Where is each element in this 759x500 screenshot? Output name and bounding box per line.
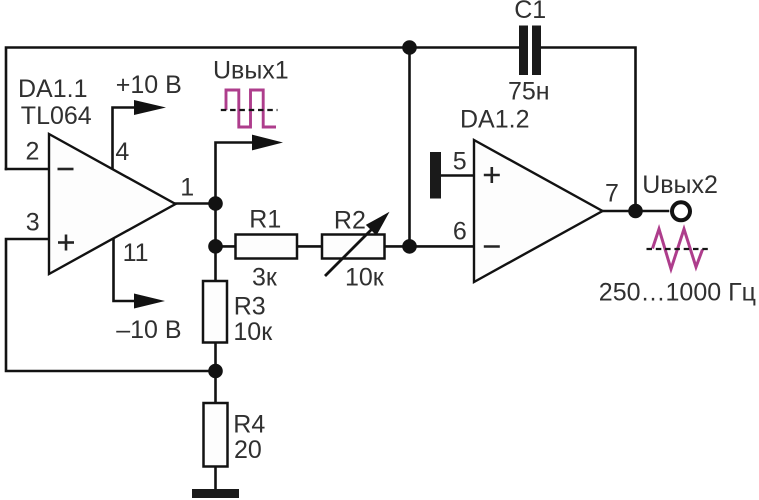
svg-text:4: 4 [115, 138, 129, 166]
svg-text:DA1.1: DA1.1 [18, 75, 87, 103]
svg-text:R4: R4 [233, 411, 265, 439]
svg-text:C1: C1 [514, 0, 546, 24]
svg-text:10к: 10к [233, 318, 273, 346]
svg-text:R1: R1 [249, 206, 281, 234]
svg-text:+10 В: +10 В [116, 71, 182, 99]
svg-text:Uвых1: Uвых1 [213, 57, 289, 85]
svg-text:6: 6 [453, 218, 467, 246]
svg-text:75н: 75н [508, 78, 550, 106]
svg-text:TL064: TL064 [21, 102, 92, 130]
svg-text:20: 20 [234, 436, 262, 464]
svg-text:7: 7 [605, 180, 619, 208]
svg-text:2: 2 [26, 138, 40, 166]
svg-text:5: 5 [453, 148, 467, 176]
svg-text:10к: 10к [345, 263, 385, 291]
svg-text:3к: 3к [252, 263, 278, 291]
svg-text:–10 В: –10 В [116, 316, 181, 344]
svg-text:3: 3 [26, 209, 40, 237]
svg-text:250…1000 Гц: 250…1000 Гц [599, 278, 756, 306]
svg-text:Uвых2: Uвых2 [642, 171, 718, 199]
svg-text:R3: R3 [234, 293, 266, 321]
svg-text:R2: R2 [334, 206, 366, 234]
svg-text:11: 11 [123, 239, 149, 267]
svg-text:DA1.2: DA1.2 [460, 106, 529, 134]
svg-text:1: 1 [180, 173, 194, 201]
